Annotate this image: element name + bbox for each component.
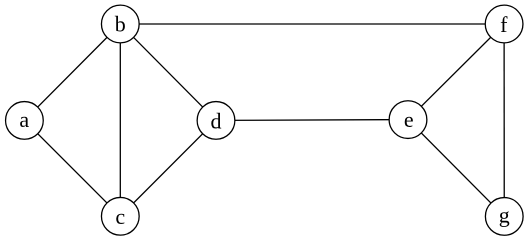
wire e-f [408, 24, 504, 120]
node d [197, 102, 235, 140]
wire b-c [119, 24, 121, 216]
svg-text:d: d [211, 109, 222, 134]
wire a-b [24, 24, 120, 120]
node b [101, 5, 139, 43]
wire e-g [408, 120, 504, 217]
node c [101, 197, 139, 235]
node a [6, 102, 44, 140]
svg-text:e: e [404, 107, 414, 132]
wire b-d [120, 24, 216, 120]
wire f-g [503, 24, 505, 216]
wire d-e [216, 119, 408, 122]
svg-text:c: c [115, 204, 125, 229]
wire a-c [24, 120, 120, 216]
wire c-d [120, 120, 216, 216]
svg-text:g: g [499, 202, 510, 227]
wire b-f [120, 23, 504, 25]
node f [485, 5, 523, 43]
svg-text:a: a [19, 107, 29, 132]
node g [485, 198, 523, 236]
node e [389, 101, 427, 139]
svg-text:f: f [500, 12, 508, 37]
svg-text:b: b [115, 11, 126, 36]
